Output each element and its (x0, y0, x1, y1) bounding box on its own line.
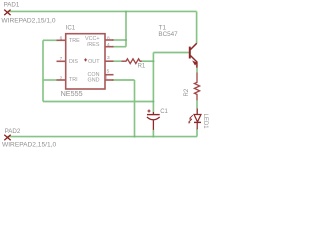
svg-text:BC547: BC547 (158, 31, 178, 38)
wire left vertical TRE-TRI (42, 40, 44, 101)
pin 1 stub (105, 79, 114, 81)
wire top rail VCC (7, 10, 196, 12)
wire emitter to R2 (196, 68, 198, 73)
wirepad PAD2 (4, 135, 10, 141)
wire pin2 TRI (43, 79, 57, 81)
wire VCC drop to pins 8/4 (125, 11, 127, 46)
svg-text:2: 2 (60, 75, 63, 81)
wire pin4 /RES (112, 46, 126, 48)
wire R2 to LED (196, 100, 198, 108)
wire C1 bottom (152, 130, 154, 137)
wire R1 to node (142, 60, 154, 62)
svg-text:3: 3 (107, 55, 110, 61)
curved bottom plate (147, 117, 160, 120)
pin 6 stub (57, 39, 66, 41)
wire collector drop (196, 11, 198, 43)
svg-text:TRI: TRI (69, 77, 78, 83)
base bar (189, 47, 191, 59)
svg-text:C1: C1 (160, 109, 168, 115)
svg-text:7: 7 (60, 56, 63, 62)
wire pin6 TRE (43, 39, 57, 41)
wire LED to rail (196, 129, 198, 137)
svg-text:R1: R1 (138, 63, 146, 69)
svg-text:NE555: NE555 (61, 89, 83, 98)
emitter arrowhead (192, 61, 197, 66)
pin 5 stub (105, 74, 114, 76)
plus sign (148, 110, 151, 113)
top lead (152, 112, 154, 115)
pin 8 stub (105, 39, 114, 41)
pin 4 stub (105, 46, 114, 48)
svg-text:R2: R2 (184, 88, 190, 96)
svg-text:GND: GND (88, 77, 100, 83)
bottom lead (152, 120, 154, 130)
LED1 (189, 109, 201, 130)
bottom lead (196, 122, 198, 129)
net class: green wires (7, 11, 197, 136)
wire GND vertical (134, 80, 136, 137)
svg-text:PAD1: PAD1 (4, 2, 20, 9)
OUT direction marker (84, 58, 87, 61)
wire base horizontal (153, 52, 189, 54)
svg-text:1: 1 (105, 75, 108, 81)
wire pin8 VCC+ (112, 39, 126, 41)
svg-text:OUT: OUT (88, 59, 100, 65)
svg-text:4: 4 (107, 42, 110, 48)
top plate (147, 114, 160, 116)
triangle (194, 115, 201, 122)
svg-text:LED1: LED1 (202, 114, 208, 130)
wire pin3 OUT to R1 (114, 60, 122, 62)
capacitor C1 (polarized) (147, 110, 160, 130)
resistor R1 (122, 59, 142, 64)
svg-text:PAD2: PAD2 (5, 128, 21, 135)
arrowhead 2 (188, 122, 191, 124)
cathode bar (194, 121, 201, 123)
top lead (196, 109, 198, 115)
wirepad PAD1 (4, 10, 10, 16)
svg-text:TRE: TRE (69, 38, 80, 44)
svg-text:WIREPAD2,15/1,0: WIREPAD2,15/1,0 (2, 142, 56, 149)
light arrow 1 (190, 115, 193, 118)
svg-text:6: 6 (60, 36, 63, 42)
wire node vertical to C1 (152, 53, 154, 113)
svg-text:DIS: DIS (69, 59, 78, 65)
pin 7 stub (57, 60, 66, 62)
svg-text:WIREPAD2,15/1,0: WIREPAD2,15/1,0 (1, 17, 55, 24)
svg-text:/RES: /RES (87, 42, 100, 48)
light arrow 2 (189, 119, 192, 122)
resistor R2 (194, 73, 199, 101)
svg-text:5: 5 (107, 69, 110, 75)
junction dots (125, 10, 154, 137)
pin 2 stub (57, 79, 66, 81)
emitter leg (190, 56, 197, 68)
svg-text:8: 8 (107, 35, 110, 41)
arrowhead 1 (189, 118, 192, 120)
op-amp/timer IC1 NE555 body (57, 34, 114, 89)
collector leg (190, 43, 196, 49)
wire bottom rail GND (7, 136, 197, 138)
transistor T1 BC547 (190, 43, 197, 68)
wire pin1 GND (112, 79, 135, 81)
wire bottom horizontal to C1 (43, 101, 153, 103)
svg-text:IC1: IC1 (66, 25, 76, 32)
pin 3 stub (105, 60, 114, 62)
